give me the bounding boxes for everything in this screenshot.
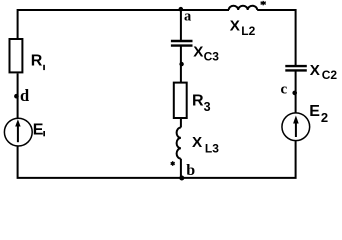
label R3 [192, 93, 211, 115]
svg-text:C2: C2 [322, 68, 338, 82]
svg-text:L3: L3 [205, 141, 219, 155]
label E2 [309, 103, 328, 125]
junction node between C3 and R3 [179, 62, 183, 66]
svg-text:X: X [310, 62, 320, 79]
wire top-right segment (coil L2 to right corner) [257, 10, 295, 66]
wire bottom-right segment (node b to bottom-right corner) [181, 141, 296, 178]
label X_C2 [310, 62, 338, 82]
node c [281, 81, 298, 97]
svg-text:X: X [230, 18, 240, 35]
svg-text:X: X [192, 134, 202, 151]
node d [14, 86, 29, 105]
wire middle-bottom segment (L3 to node b) [180, 159, 182, 178]
wire left-middle segment (R1 to E1) [17, 74, 19, 119]
source E2 [282, 113, 310, 141]
label E1 [33, 121, 45, 138]
svg-text:L2: L2 [241, 24, 255, 38]
resistor R1 [10, 39, 23, 72]
capacitor C3 [171, 41, 193, 46]
label X_L3 [192, 134, 219, 155]
svg-text:R: R [192, 93, 204, 110]
svg-text:a: a [184, 9, 192, 25]
node a [179, 7, 193, 25]
wire middle short segment (R3 to L3) [180, 118, 182, 128]
svg-text:X: X [193, 43, 203, 60]
wire middle-top segment (node a to C3) [180, 10, 182, 41]
star marker of L3 [171, 161, 175, 166]
node b [179, 162, 195, 180]
svg-text:E: E [33, 121, 44, 138]
wire right-middle segment (C2 to E2) [295, 71, 297, 113]
svg-text:c: c [281, 81, 288, 97]
svg-text:3: 3 [204, 100, 211, 114]
svg-text:b: b [186, 162, 195, 179]
svg-text:E: E [309, 103, 320, 120]
source E1 [4, 118, 32, 146]
wire middle segment (C3 to R3) [180, 46, 182, 83]
resistor R3 [174, 83, 187, 118]
star marker of L2 [261, 1, 266, 5]
svg-text:2: 2 [321, 110, 328, 125]
wire left-bottom segment (E1 to bottom-left corner) [18, 147, 181, 178]
label X_C3 [193, 43, 219, 63]
inductor L2 [229, 6, 258, 10]
svg-text:C3: C3 [204, 49, 220, 63]
inductor L3 [177, 128, 181, 159]
wire top-left segment (left corner to coil L2) [18, 10, 229, 39]
label R1 [31, 53, 45, 71]
label X_L2 [230, 18, 256, 39]
svg-text:d: d [20, 86, 29, 105]
svg-text:R: R [31, 53, 43, 70]
capacitor C2 [285, 66, 307, 70]
